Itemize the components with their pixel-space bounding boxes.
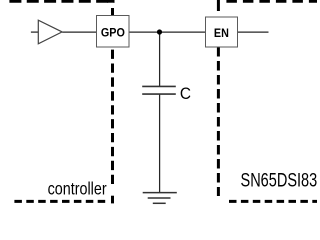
svg-text:GPO: GPO [101,26,125,40]
svg-text:EN: EN [214,26,229,40]
svg-text:C: C [180,85,191,104]
svg-text:controller: controller [48,180,108,199]
svg-text:SN65DSI83: SN65DSI83 [241,170,318,191]
